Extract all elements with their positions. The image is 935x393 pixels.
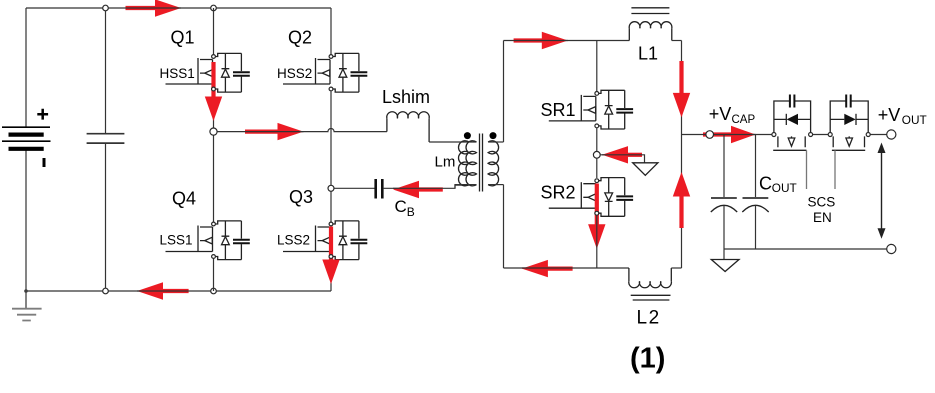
arrow current through Q1 (205, 62, 222, 121)
svg-text:LSS2: LSS2 (277, 233, 310, 248)
wire C_B to transformer (384, 185, 469, 188)
node top rail / Q1 leg (211, 5, 217, 11)
svg-text:OUT: OUT (772, 181, 797, 195)
transistor Q2 (283, 53, 367, 92)
svg-text:LSS1: LSS1 (160, 233, 193, 248)
svg-text:HSS1: HSS1 (160, 66, 195, 81)
svg-text:OUT: OUT (902, 113, 927, 127)
battery V_IN (2, 109, 51, 167)
wire node to ground (600, 155, 644, 163)
transformer T1 (455, 132, 504, 191)
svg-text:Q3: Q3 (289, 187, 313, 207)
node phase A (Q1/Q4 midpoint) (210, 128, 217, 135)
wire SR1 to mid node (596, 128, 598, 178)
wire Lshim to transformer (429, 141, 455, 143)
switch SCS FET b (828, 95, 870, 190)
svg-text:+V: +V (878, 105, 901, 125)
capacitor C_B (376, 179, 383, 199)
capacitor C_IN (87, 8, 125, 291)
ground (primary) (12, 289, 42, 320)
svg-text:L2: L2 (637, 308, 661, 329)
svg-text:Lm: Lm (435, 154, 456, 171)
wire Q2-Q3 leg (330, 92, 332, 292)
svg-text:L1: L1 (638, 43, 658, 63)
wire Q1-Q4 leg middle (213, 92, 215, 292)
wire Q1 leg upper (213, 8, 215, 55)
wire secondary bottom (488, 184, 503, 186)
wire output leg right (681, 41, 683, 269)
svg-text:B: B (407, 205, 415, 219)
svg-text:SR2: SR2 (541, 183, 576, 203)
svg-text:(1): (1) (630, 342, 665, 374)
svg-text:SR1: SR1 (541, 100, 576, 120)
dot secondary polarity (490, 132, 497, 139)
wire battery branch (25, 8, 27, 291)
wire primary top (455, 141, 477, 143)
transistor SR2 (549, 178, 633, 217)
ground (output) (711, 249, 739, 272)
node SR midpoint (593, 151, 600, 158)
svg-text:SCS: SCS (808, 194, 836, 209)
arrow current L2 leg up (673, 172, 690, 228)
switch SCS FET a (772, 95, 813, 190)
arrow Vout span (878, 143, 886, 239)
svg-text:C: C (759, 173, 772, 193)
transistor SR1 (549, 90, 633, 129)
terminal +VOUT top (887, 130, 896, 139)
arrow current to +VCAP (703, 126, 756, 143)
svg-text:Q4: Q4 (172, 188, 196, 208)
wire phase A to Lshim with hop over Q2 leg (217, 129, 387, 132)
svg-text:C: C (395, 197, 407, 216)
wire secondary top riser (503, 41, 505, 143)
inductor L1 (629, 8, 681, 41)
node bottom rail / Q4 leg (211, 288, 217, 294)
wire primary bottom (455, 185, 477, 189)
wire C_B tap to C_B (334, 187, 375, 189)
transistor Q1 (166, 53, 250, 92)
wire SR2 to bottom rail (596, 215, 598, 268)
node top rail / C_IN (103, 5, 109, 11)
svg-text:HSS2: HSS2 (277, 66, 312, 81)
capacitor C_OUT b (742, 135, 768, 250)
winding primary (466, 141, 476, 186)
wire bottom rail (26, 290, 331, 292)
wire output rail (682, 134, 887, 136)
arrow current into node (602, 146, 642, 163)
wire output bottom rail (724, 248, 887, 250)
inductor Lshim (387, 112, 429, 142)
dot primary polarity (464, 132, 471, 139)
svg-text:Q1: Q1 (171, 28, 195, 48)
wire top rail (26, 7, 331, 9)
svg-text:Q2: Q2 (288, 28, 312, 48)
arrow current through Q3 (322, 227, 339, 285)
arrow current phase A wire (245, 123, 304, 140)
inductor L2 (629, 268, 682, 300)
arrow current secondary top (514, 32, 568, 49)
arrow current bottom rail (137, 282, 189, 299)
arrow current C_B wire (393, 181, 443, 198)
core (480, 134, 483, 192)
terminal VOUT return (887, 244, 896, 253)
svg-text:Lshim: Lshim (382, 87, 430, 107)
node bottom rail / C_IN (103, 288, 109, 294)
svg-text:CAP: CAP (732, 114, 756, 126)
wire SR leg upper (596, 41, 598, 94)
wire Q2 leg upper (330, 8, 332, 55)
wire secondary top rail (504, 40, 630, 42)
arrow current through SR2 (588, 184, 605, 249)
wire secondary bottom riser (503, 185, 505, 268)
winding secondary (488, 141, 498, 186)
node C_B tap (328, 185, 334, 191)
wire secondary top (488, 141, 503, 143)
wire secondary bottom rail (504, 267, 629, 269)
arrow current L1 leg down (673, 61, 690, 117)
node +VCAP (706, 131, 714, 139)
svg-text:+V: +V (709, 104, 732, 124)
transistor Q3 (283, 221, 367, 260)
winding Lm (magnetizing) (459, 141, 469, 186)
svg-text:EN: EN (813, 210, 832, 225)
arrow current top rail (126, 0, 182, 17)
transistor Q4 (166, 221, 250, 260)
arrow current secondary bottom (522, 260, 573, 277)
ground (secondary mid) (633, 163, 658, 176)
capacitor C_OUT a (711, 135, 737, 250)
